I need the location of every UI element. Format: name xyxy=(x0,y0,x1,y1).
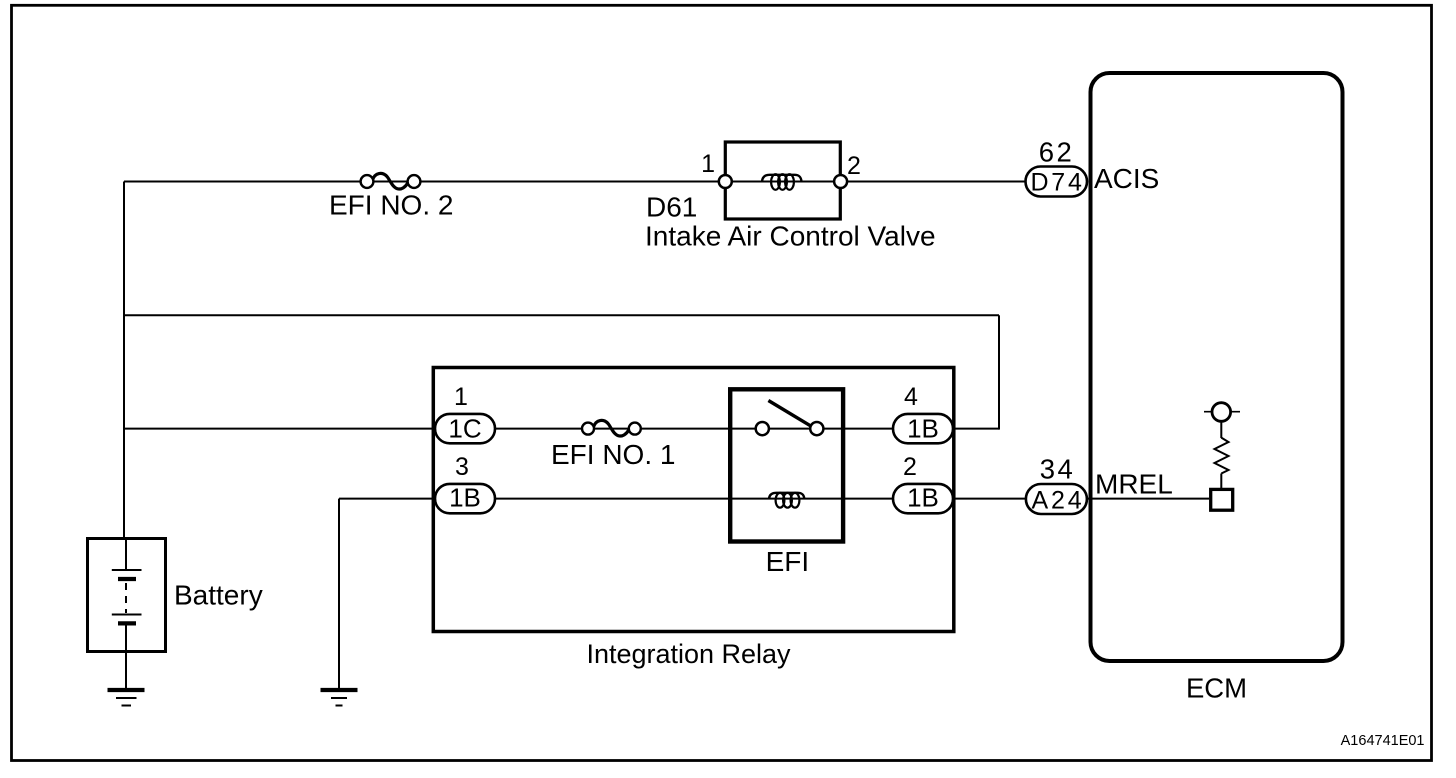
svg-text:34: 34 xyxy=(1040,454,1076,485)
svg-text:4: 4 xyxy=(904,383,918,411)
svg-text:62: 62 xyxy=(1039,137,1075,168)
valve pin 2 xyxy=(834,175,847,188)
svg-text:A164741E01: A164741E01 xyxy=(1341,733,1425,749)
terminal 1B pin 2 xyxy=(893,484,953,513)
battery xyxy=(88,539,166,652)
svg-text:1: 1 xyxy=(454,383,468,411)
relay coil xyxy=(769,493,804,508)
relay switch blade xyxy=(768,401,811,427)
wire: upper relay row (1C to pin 4 run) xyxy=(124,428,999,430)
relay switch contacts xyxy=(756,422,769,435)
resistor (pull-up) xyxy=(1215,438,1229,474)
MREL driver square xyxy=(1211,489,1233,510)
svg-text:2: 2 xyxy=(903,453,917,481)
relay inner box (EFI relay) xyxy=(730,389,843,541)
terminal 1B pin 4 xyxy=(893,414,953,443)
wire: branch to pin 4 (horizontal) xyxy=(124,314,999,316)
svg-text:A24: A24 xyxy=(1032,486,1085,514)
terminal 1C xyxy=(435,414,495,443)
svg-text:1B: 1B xyxy=(907,483,939,513)
svg-text:1: 1 xyxy=(701,150,715,178)
svg-text:MREL: MREL xyxy=(1095,469,1173,500)
svg-text:D61: D61 xyxy=(646,192,697,223)
svg-text:Integration Relay: Integration Relay xyxy=(586,639,791,669)
svg-text:D74: D74 xyxy=(1030,169,1084,197)
svg-text:Intake Air Control Valve: Intake Air Control Valve xyxy=(645,221,936,252)
fuse EFI NO. 2 xyxy=(361,173,421,189)
wire: branch to pin 4 (vertical drop) xyxy=(998,315,1000,429)
ground (battery) xyxy=(108,690,145,706)
wire xyxy=(1220,474,1222,490)
valve pin 1 xyxy=(719,175,732,188)
wire: left vertical B+ bus xyxy=(123,182,125,540)
svg-text:3: 3 xyxy=(455,453,469,481)
wire: battery to ground xyxy=(125,651,127,689)
svg-text:1C: 1C xyxy=(448,414,481,444)
svg-text:EFI NO. 1: EFI NO. 1 xyxy=(551,439,675,470)
ECM internal pull-up node circle xyxy=(1204,411,1240,413)
ECM box xyxy=(1091,73,1343,661)
wire: lower relay row (1B pin3 to MREL square) xyxy=(339,498,1209,500)
terminal 1B pin 3 xyxy=(435,484,495,513)
wire: ground drop from pin 3 xyxy=(338,499,340,689)
fuse EFI NO. 1 xyxy=(582,420,641,436)
integration relay box xyxy=(433,368,954,632)
wire xyxy=(1220,421,1222,438)
intake air control valve D61 box xyxy=(725,142,840,219)
connector A24 xyxy=(1026,484,1087,514)
svg-text:EFI: EFI xyxy=(766,546,810,577)
svg-text:Battery: Battery xyxy=(174,580,263,611)
wire: B+ top horizontal to valve and D74 xyxy=(124,181,1026,183)
ground (relay pin 3) xyxy=(321,690,358,706)
svg-text:EFI NO. 2: EFI NO. 2 xyxy=(329,190,453,221)
connector D74 xyxy=(1026,167,1088,197)
valve coil xyxy=(762,174,802,190)
svg-text:ACIS: ACIS xyxy=(1094,163,1159,194)
svg-text:ECM: ECM xyxy=(1186,673,1247,704)
svg-text:1B: 1B xyxy=(449,483,481,513)
svg-text:2: 2 xyxy=(847,152,861,180)
svg-text:1B: 1B xyxy=(907,414,939,444)
